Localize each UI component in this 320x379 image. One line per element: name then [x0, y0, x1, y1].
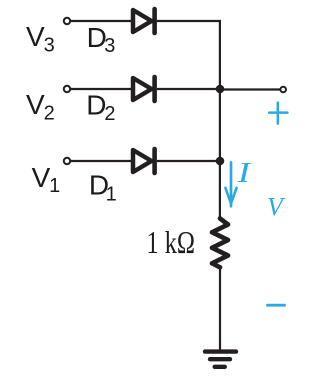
svg-text:3: 3	[104, 35, 115, 57]
svg-text:V: V	[32, 162, 51, 193]
svg-text:1: 1	[49, 175, 60, 197]
svg-text:1: 1	[106, 184, 117, 206]
svg-text:1 kΩ: 1 kΩ	[147, 225, 196, 260]
svg-text:2: 2	[104, 103, 115, 125]
svg-text:I: I	[236, 158, 252, 189]
svg-text:V: V	[26, 89, 45, 120]
svg-text:2: 2	[44, 103, 55, 125]
svg-text:V: V	[26, 21, 45, 52]
svg-text:3: 3	[44, 35, 55, 57]
